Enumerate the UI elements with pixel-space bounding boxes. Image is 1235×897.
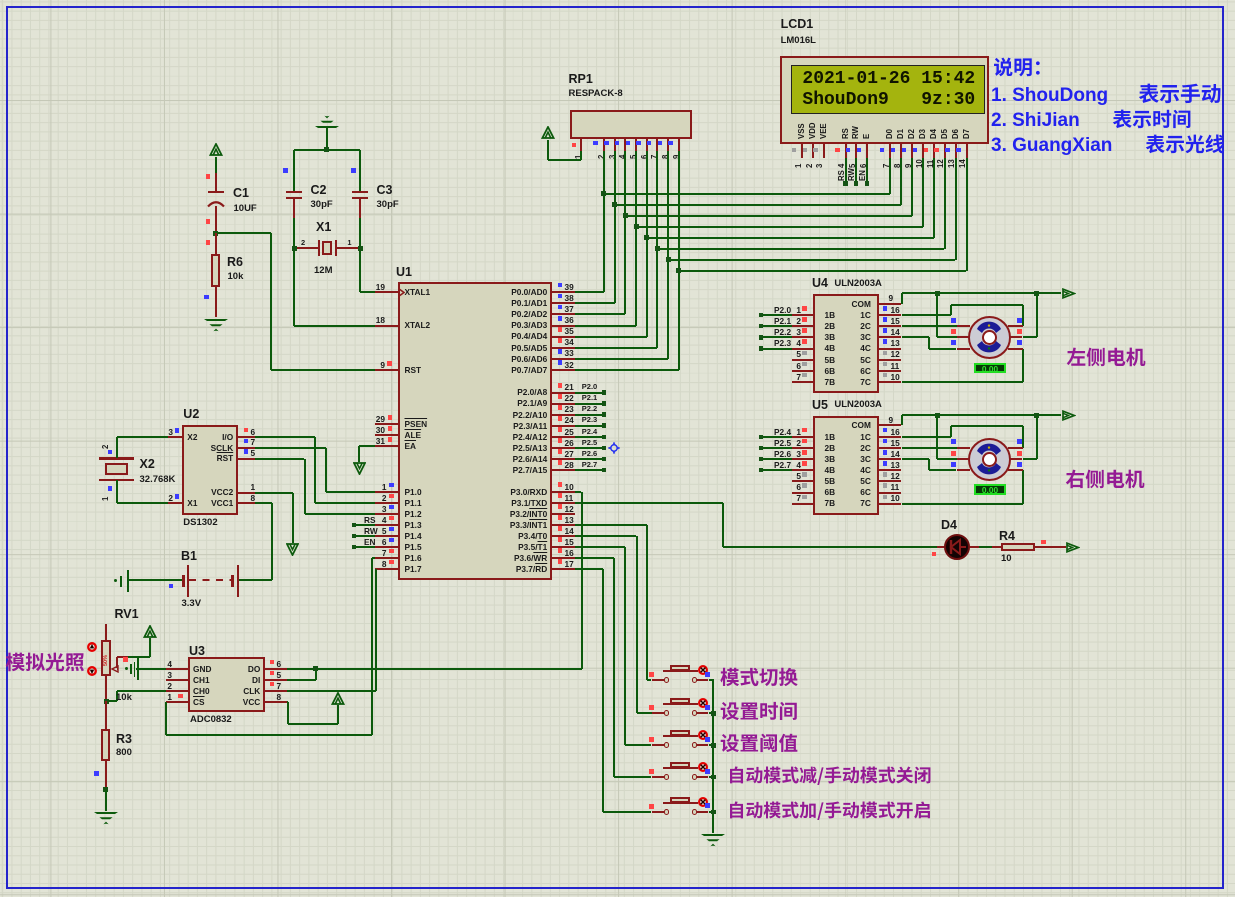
wire U4m 2C to motor LA — [0, 0, 1235, 1]
wire wiper to VCC — [0, 0, 1235, 1]
wire U4m 7C to motor RB — [0, 0, 1235, 1]
motor speed display U4m — [0, 0, 1235, 1]
wire X2 top to U2.X2 — [0, 0, 1235, 1]
ground arrow at U2 VCC2 — [0, 0, 1235, 1]
wire U3 CLK to U1 P1.7 — [0, 0, 1235, 1]
note text block (blue) — [0, 0, 1235, 1]
wire U4m right tap to rail — [0, 0, 1235, 1]
ground below buttons — [0, 0, 1235, 1]
ground below R3 — [0, 0, 1235, 1]
label 设置时间 — [0, 0, 1235, 1]
wire bus D5: RP1 pin7 / LCD D5 / U1 P0.5 — [0, 0, 1235, 1]
IC U1 80C51 microcontroller — [0, 0, 1235, 1]
IC U3 ADC0832 — [0, 0, 1235, 1]
cursor crosshair — [0, 0, 1235, 1]
capacitor C1 10UF — [0, 0, 1235, 1]
potentiometer RV1 10k — [0, 0, 1235, 1]
wire U5m 3C to motor LB — [0, 0, 1235, 1]
junction X1 pin2 — [0, 0, 1235, 1]
push button SW3 — [0, 0, 1235, 1]
wire U2 VCC2 to ground — [0, 0, 1235, 1]
power arrow VCC at U3 — [0, 0, 1235, 1]
capacitor C2 30pF — [0, 0, 1235, 1]
resistor pack RP1 RESPACK-8 — [0, 0, 1235, 1]
junction RV1/R3/CH0 — [0, 0, 1235, 1]
wire U5m left tap to rail — [0, 0, 1235, 1]
junction rail left U4m — [0, 0, 1235, 1]
red indicator at wiper — [0, 0, 1235, 1]
wire U2 SCLK to U1 P1.0 — [0, 0, 1235, 1]
junction X1 pin1 — [0, 0, 1235, 1]
wire U3 DI join DO — [0, 0, 1235, 1]
wire C3/X1.1 to U1 XTAL1 — [0, 0, 1235, 1]
pot increment button — [0, 0, 1235, 1]
wire U2 VCC1 to battery — [0, 0, 1235, 1]
wire bus D4: RP1 pin6 / LCD D4 / U1 P0.4 — [0, 0, 1235, 1]
net labels P2.0-P2.3 at U4 — [0, 0, 1235, 1]
wire C1/R6 junction to U1 RST — [0, 0, 1235, 1]
power arrow at RV1 wiper — [0, 0, 1235, 1]
resistor R3 800 — [0, 0, 1235, 1]
power arrow right of R4 — [0, 0, 1235, 1]
wire R3 to ground — [0, 0, 1235, 1]
stepper motor U5m — [0, 0, 1235, 1]
wire U5m +V rail — [0, 0, 1235, 1]
wire wiper branch down — [0, 0, 1235, 1]
ground below R6 — [0, 0, 1235, 1]
resistor R6 10k — [0, 0, 1235, 1]
wire U3 CS to U1 P1.6 — [0, 0, 1235, 1]
net labels RS RW EN at LCD — [0, 0, 1235, 1]
label 右侧电机 — [0, 0, 1235, 1]
wire U4m 1C to motor RA — [0, 0, 1235, 1]
wire gnd rail to C2/C3 — [0, 0, 1235, 1]
series cell at wiper — [0, 0, 1235, 1]
junction node C1/R6 — [0, 0, 1235, 1]
wire U5m COM to rail — [0, 0, 1235, 1]
wire U5m 7C to motor RB — [0, 0, 1235, 1]
label 自动模式减/手动模式关闭 — [0, 0, 1235, 1]
LCD display LCD1 LM016L — [0, 0, 1235, 1]
crystal X2 32.768K — [0, 0, 1235, 1]
pot decrement button — [0, 0, 1235, 1]
junction rail right U4m — [0, 0, 1235, 1]
wire U4m 3C to motor LB — [0, 0, 1235, 1]
wire EA to ground — [0, 0, 1235, 1]
wire U1 P3.4 to SW2 — [0, 0, 1235, 1]
net labels P2.4-P2.7 at U5 — [0, 0, 1235, 1]
wire battery cell to B1 — [0, 0, 1235, 1]
junction DO/DI — [0, 0, 1235, 1]
label 设置阈值 — [0, 0, 1235, 1]
junction gnd rail — [0, 0, 1235, 1]
power arrow U4m rail — [0, 0, 1235, 1]
push button SW4 — [0, 0, 1235, 1]
wire U1 P3.6 to SW4 — [0, 0, 1235, 1]
ground above crystal — [0, 0, 1235, 1]
wire U3 VCC to power — [0, 0, 1235, 1]
power arrow VCC at RP1 pin1 — [0, 0, 1235, 1]
wire bus D6: RP1 pin8 / LCD D6 / U1 P0.6 — [0, 0, 1235, 1]
wire U1 P3.1 to D4 — [0, 0, 1235, 1]
stepper motor U4m — [0, 0, 1235, 1]
capacitor C3 30pF — [0, 0, 1235, 1]
wire U4m COM to rail — [0, 0, 1235, 1]
wire bus D1: RP1 pin3 / LCD D1 / U1 P0.1 — [0, 0, 1235, 1]
wire RP1 pin1 to VCC — [0, 0, 1235, 1]
IC U2 DS1302 RTC — [0, 0, 1235, 1]
net labels P2.0-P2.7 at U1 — [0, 0, 1235, 1]
wire U4m +V rail — [0, 0, 1235, 1]
wire U5m 1C to motor RA — [0, 0, 1235, 1]
resistor R4 10 — [0, 0, 1235, 1]
net labels RS RW EN at U1 — [0, 0, 1235, 1]
wire U1 P3.5 to SW3 — [0, 0, 1235, 1]
wire bus D2: RP1 pin4 / LCD D2 / U1 P0.2 — [0, 0, 1235, 1]
IC U5 ULN2003A — [0, 0, 1235, 1]
battery B1 3.3V — [0, 0, 1235, 1]
wire U1 P3.7 to SW5 — [0, 0, 1235, 1]
battery cell (negative reference) — [0, 0, 1235, 1]
push button SW1 — [0, 0, 1235, 1]
wire buttons common to ground — [0, 0, 1235, 1]
wire cell to U3 GND — [0, 0, 1235, 1]
wire X2 bottom to U2.X1 — [0, 0, 1235, 1]
push button SW5 — [0, 0, 1235, 1]
ground arrow at EA — [0, 0, 1235, 1]
wire U1 P3.3 to SW1 — [0, 0, 1235, 1]
wire bus D3: RP1 pin5 / LCD D3 / U1 P0.3 — [0, 0, 1235, 1]
wire U3 CH0 to RV1 — [0, 0, 1235, 1]
wire bus D7: RP1 pin9 / LCD D7 / U1 P0.7 — [0, 0, 1235, 1]
junction rail left U5m — [0, 0, 1235, 1]
power arrow VCC at C1 — [0, 0, 1235, 1]
wire U5m 2C to motor LA — [0, 0, 1235, 1]
motor speed display U5m — [0, 0, 1235, 1]
wire bus D0: RP1 pin2 / LCD D0 / U1 P0.0 — [0, 0, 1235, 1]
label 模拟光照 — [0, 0, 1235, 1]
label 左侧电机 — [0, 0, 1235, 1]
crystal X1 12M — [0, 0, 1235, 1]
wire U3 DO to U1 P3.0 — [0, 0, 1235, 1]
IC U4 ULN2003A — [0, 0, 1235, 1]
wire U2 I/O to U1 P1.1 — [0, 0, 1235, 1]
push button SW2 — [0, 0, 1235, 1]
wire C2/X1.2 to U1 XTAL2 — [0, 0, 1235, 1]
junction rail right U5m — [0, 0, 1235, 1]
LED D4 — [0, 0, 1235, 1]
power arrow U5m rail — [0, 0, 1235, 1]
junction below R3 — [0, 0, 1235, 1]
label 自动模式加/手动模式开启 — [0, 0, 1235, 1]
wire U4m left tap to rail — [0, 0, 1235, 1]
wire U5m right tap to rail — [0, 0, 1235, 1]
wire U2 RST to U1 P1.2 — [0, 0, 1235, 1]
label 模式切换 — [0, 0, 1235, 1]
